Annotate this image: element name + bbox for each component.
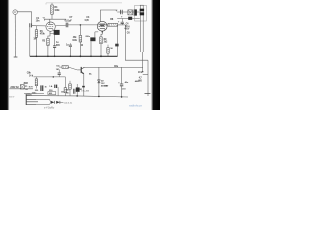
svg-text:10n: 10n: [36, 20, 40, 23]
cap C4 on branch vertical: [121, 19, 123, 25]
wire V1 plate: [44, 19, 66, 24]
collector line: [84, 66, 142, 68]
cap C8 from feedback to base line: [58, 69, 60, 77]
input jack J1: [13, 10, 18, 15]
wire jack ground drop: [14, 14, 16, 56]
capacitor C12 (filter, +): [121, 10, 123, 14]
svg-text:110k: 110k: [72, 40, 77, 42]
transistor T1: [77, 69, 81, 71]
right black bar: [151, 0, 160, 110]
wire PSU lower rail: [117, 18, 140, 20]
ground bus wire: [30, 55, 118, 57]
bottom rail wire: [26, 96, 128, 97]
bus junction dots: [36, 56, 38, 58]
resistor R3 cathode: [47, 38, 50, 45]
wire top rail (B+, faint): [46, 3, 122, 5]
svg-text:C9b: C9b: [27, 73, 32, 75]
vertical to bus end with pot blob: [116, 25, 118, 56]
resistor R1 grid leak: [35, 26, 37, 30]
svg-text:220n: 220n: [85, 36, 90, 38]
long vertical to output: [125, 25, 148, 60]
wire C1 to V1 grid: [32, 25, 46, 27]
svg-text:230 V: 230 V: [9, 97, 15, 99]
capacitor C1: [30, 23, 32, 27]
capacitor C13 (black electrolytic): [134, 9, 137, 15]
svg-text:1M: 1M: [56, 69, 59, 71]
emitter branch: [83, 74, 85, 86]
svg-text:400V: 400V: [124, 27, 130, 30]
coupling cap C7: [55, 24, 66, 27]
page background: [0, 0, 160, 110]
cap C5 vertical with stub: [69, 43, 71, 45]
svg-text:e 4 3a/6u: e 4 3a/6u: [44, 105, 55, 109]
resistor pair below base network: [64, 77, 66, 88]
node junction: [80, 24, 82, 26]
svg-text:MA: MA: [104, 84, 108, 87]
wire C2 down: [54, 35, 56, 46]
wire jack to C1: [18, 12, 32, 23]
svg-text:470k: 470k: [40, 33, 46, 36]
diode D4: [56, 101, 60, 104]
capacitor C2 cathode bypass (dark): [50, 33, 54, 35]
resistor R5: [79, 25, 81, 36]
wire secondary to rectifier: [36, 99, 51, 104]
svg-text:1 A: 1 A: [49, 85, 53, 88]
resistor R10b base: [59, 66, 62, 68]
speaker drop: [142, 60, 144, 72]
electrolytic C10: [121, 67, 123, 83]
svg-text:radiolv.cn: radiolv.cn: [129, 103, 142, 107]
feedback line: [34, 76, 66, 78]
svg-text:0,01uF: 0,01uF: [65, 20, 73, 23]
svg-text:100n: 100n: [32, 93, 37, 95]
resistor at line start: [35, 79, 38, 86]
zener branch: [98, 67, 100, 96]
cap C3 (dark blob) to V2 grid: [95, 32, 98, 38]
fuse F1: [20, 85, 24, 89]
svg-text:100k: 100k: [54, 9, 60, 12]
rectifier bridge box: [128, 10, 133, 15]
junction below V2: [101, 31, 103, 33]
cathode wire V1: [48, 31, 50, 38]
left black bar: [0, 0, 9, 110]
wire V2 plate: [100, 10, 117, 21]
E-core / terminal: [25, 94, 27, 105]
ground dash: [14, 56, 18, 58]
resistor R9: [100, 37, 103, 44]
wire to right post: [143, 74, 148, 76]
svg-text:400V: 400V: [135, 80, 140, 83]
mains wires: [10, 88, 33, 90]
svg-text:63V: 63V: [56, 45, 60, 47]
wire PSU upper rail: [117, 11, 140, 13]
svg-text:St Tr: St Tr: [29, 85, 34, 88]
resistor R10 small: [107, 45, 109, 48]
tube V2: [97, 21, 107, 31]
rail junction dots: [76, 95, 78, 97]
resistor R8 anode V2: [105, 24, 108, 26]
resistor R4 plate: [51, 3, 53, 5]
diode D3: [51, 101, 55, 104]
output transformer: [135, 5, 147, 21]
svg-text:CTL-400: CTL-400: [81, 90, 90, 93]
svg-text:zad 4, 3a: zad 4, 3a: [64, 102, 73, 105]
svg-text:1M: 1M: [33, 38, 36, 41]
tube V1: [46, 22, 55, 31]
